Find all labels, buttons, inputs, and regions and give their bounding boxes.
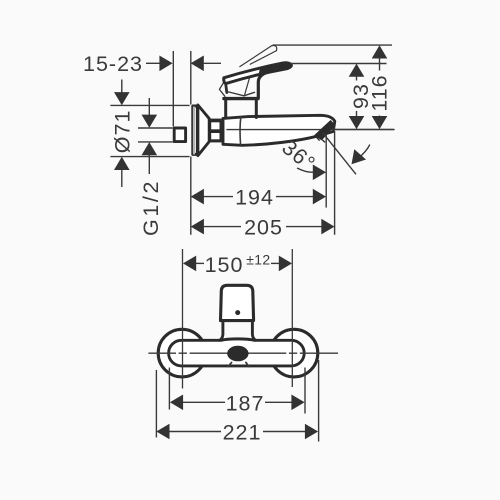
svg-text:116: 116 [367, 74, 391, 111]
svg-text:Ø71: Ø71 [111, 110, 135, 154]
svg-text:±12: ±12 [246, 251, 270, 267]
svg-text:150: 150 [205, 253, 244, 277]
svg-text:221: 221 [223, 421, 262, 445]
svg-text:194: 194 [235, 186, 274, 210]
svg-text:G1/2: G1/2 [139, 179, 163, 236]
svg-text:15-23: 15-23 [83, 52, 143, 76]
svg-text:205: 205 [244, 216, 283, 240]
svg-text:187: 187 [226, 391, 265, 415]
